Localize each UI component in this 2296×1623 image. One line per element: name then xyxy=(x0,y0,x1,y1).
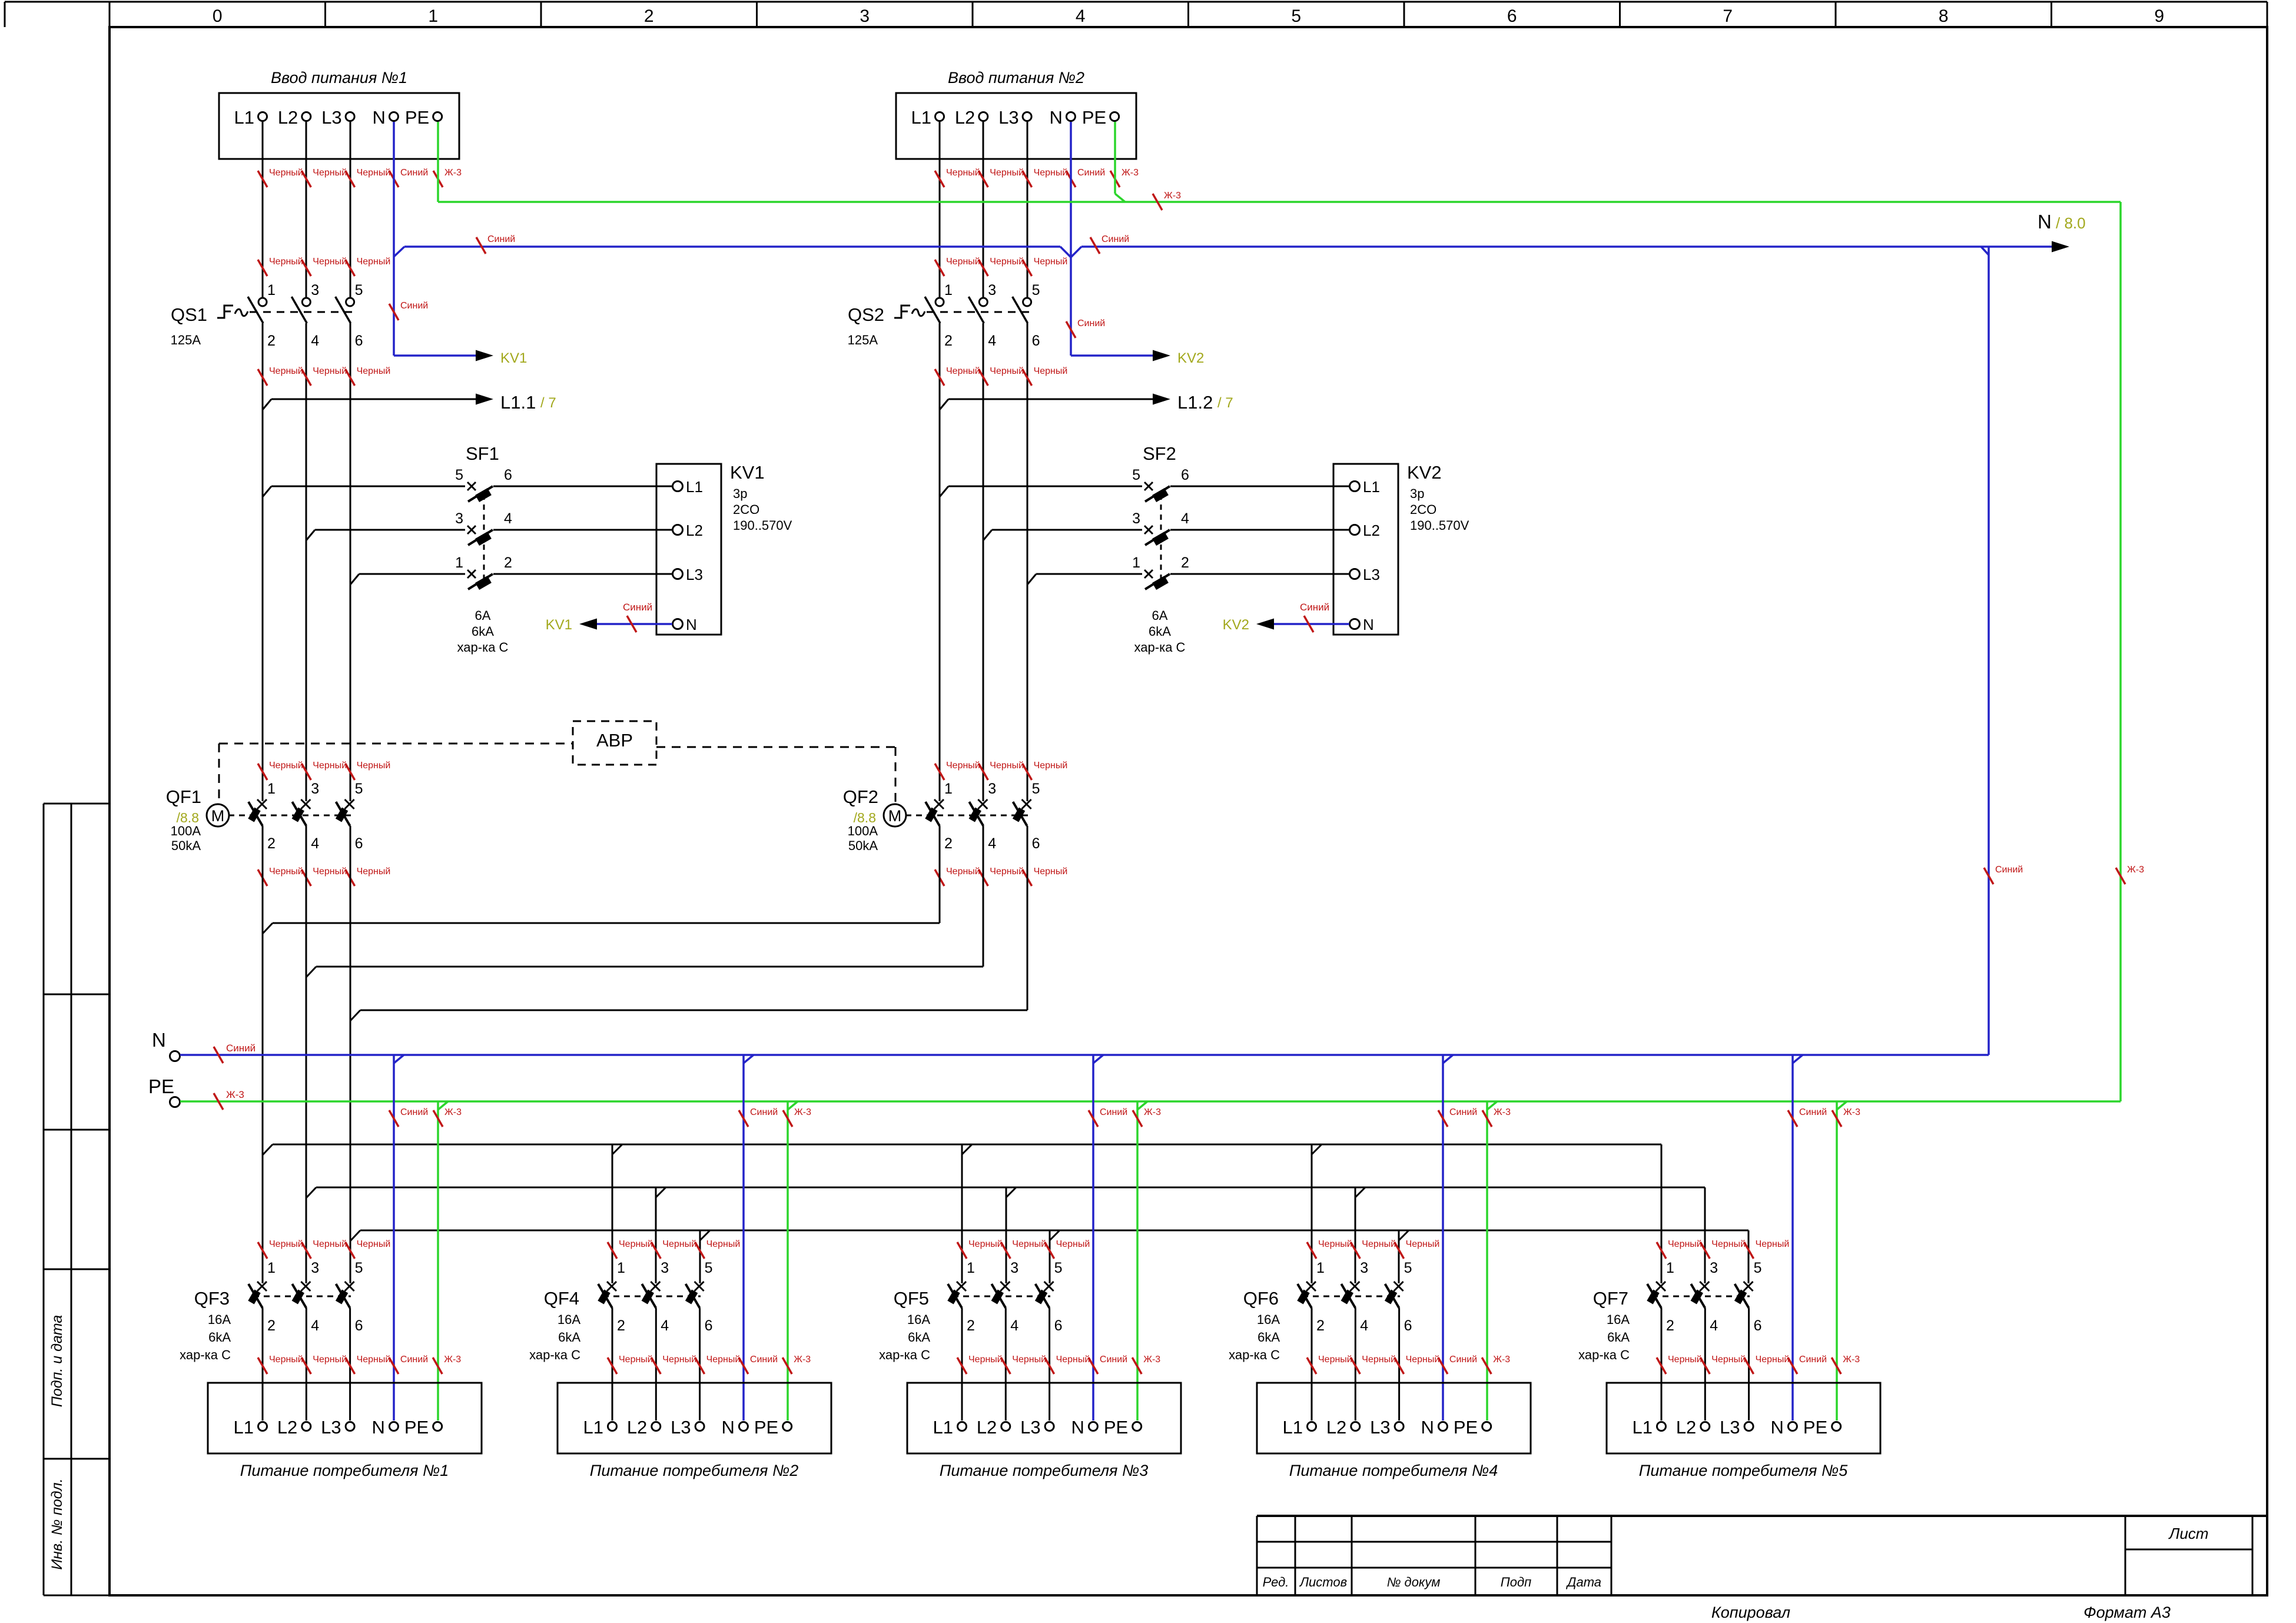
svg-text:L1: L1 xyxy=(1363,478,1380,496)
svg-text:Черный: Черный xyxy=(1318,1239,1352,1249)
svg-text:Черный: Черный xyxy=(1406,1239,1440,1249)
svg-text:Черный: Черный xyxy=(313,761,347,771)
svg-text:Черный: Черный xyxy=(968,1239,1003,1249)
svg-text:Листов: Листов xyxy=(1299,1575,1347,1589)
svg-text:9: 9 xyxy=(2154,6,2164,26)
wire N bus upper horizontal xyxy=(394,234,2052,257)
svg-text:Черный: Черный xyxy=(1406,1355,1440,1365)
svg-text:Черный: Черный xyxy=(357,168,391,178)
wire QF2 L2 output down to tie bus xyxy=(983,826,984,967)
wire QS2 L1 output to QF2 xyxy=(939,323,941,801)
svg-text:6: 6 xyxy=(1054,1317,1063,1334)
svg-text:/ 8.0: / 8.0 xyxy=(2056,214,2086,232)
wire KV2 N output with arrow to KV2 xyxy=(1223,602,1349,633)
svg-text:Ж-3: Ж-3 xyxy=(444,1355,461,1365)
svg-text:4: 4 xyxy=(988,835,996,852)
wire distribution bus L1 to consumer breakers xyxy=(263,1144,1661,1283)
svg-text:Синий: Синий xyxy=(1100,1355,1127,1365)
wire colour labels above QF2 xyxy=(935,761,1067,780)
svg-text:5: 5 xyxy=(355,1260,363,1276)
svg-text:Ж-3: Ж-3 xyxy=(1164,191,1181,201)
svg-text:2: 2 xyxy=(944,333,953,349)
svg-text:3: 3 xyxy=(988,282,996,298)
svg-text:Синий: Синий xyxy=(1077,318,1105,328)
svg-text:Дата: Дата xyxy=(1565,1575,1601,1589)
svg-text:PE: PE xyxy=(405,107,429,128)
svg-text:125A: 125A xyxy=(171,333,201,347)
svg-text:Черный: Черный xyxy=(269,1355,303,1365)
svg-text:Ж-3: Ж-3 xyxy=(1143,1355,1160,1365)
svg-text:Черный: Черный xyxy=(946,867,980,877)
svg-text:Черный: Черный xyxy=(313,1239,347,1249)
svg-text:Синий: Синий xyxy=(487,234,515,244)
wire PE bus right side vertical xyxy=(2116,202,2144,1101)
node L1.2 / 7 sheet reference arrow xyxy=(940,392,1233,413)
svg-text:5: 5 xyxy=(355,781,363,797)
terminal block output Питание потребителя №5 xyxy=(1607,1383,1880,1479)
svg-text:L3: L3 xyxy=(1363,566,1380,583)
wire colour labels below QF1 xyxy=(258,867,390,886)
svg-text:5: 5 xyxy=(1032,282,1040,298)
wire input1 L1 phase to QS1 xyxy=(262,122,264,298)
wire N input1 blue drop to KV1 arrow xyxy=(389,122,476,356)
svg-text:4: 4 xyxy=(1010,1317,1018,1334)
svg-text:190..570V: 190..570V xyxy=(733,518,792,533)
svg-text:Черный: Черный xyxy=(662,1355,696,1365)
svg-text:L2: L2 xyxy=(1326,1417,1346,1438)
wire QF2 L3 output down to tie bus xyxy=(1027,826,1028,1010)
svg-text:Черный: Черный xyxy=(357,1355,391,1365)
svg-text:6: 6 xyxy=(1181,467,1189,483)
svg-text:2: 2 xyxy=(267,333,276,349)
svg-text:1: 1 xyxy=(617,1260,625,1276)
wire colour labels above QF3 xyxy=(258,1239,390,1259)
svg-text:Питание потребителя №5: Питание потребителя №5 xyxy=(1639,1462,1848,1479)
svg-text:5: 5 xyxy=(1054,1260,1063,1276)
svg-text:N: N xyxy=(722,1417,735,1438)
node L1.1 / 7 sheet reference arrow xyxy=(263,392,556,413)
svg-text:Синий: Синий xyxy=(1101,234,1129,244)
svg-text:4: 4 xyxy=(1076,6,1086,26)
svg-text:3: 3 xyxy=(988,781,996,797)
svg-text:4: 4 xyxy=(311,1317,319,1334)
svg-text:Питание потребителя №3: Питание потребителя №3 xyxy=(940,1462,1149,1479)
svg-text:2: 2 xyxy=(504,555,512,571)
svg-text:4: 4 xyxy=(661,1317,669,1334)
svg-text:16A: 16A xyxy=(558,1312,580,1327)
svg-text:Черный: Черный xyxy=(990,257,1024,267)
wire input2 L3 phase to QS2 xyxy=(1027,122,1028,298)
svg-text:L3: L3 xyxy=(321,107,341,128)
svg-text:3: 3 xyxy=(1360,1260,1368,1276)
automatic transfer switch control box АВР xyxy=(573,721,656,765)
svg-text:L2: L2 xyxy=(955,107,975,128)
svg-text:L1.2: L1.2 xyxy=(1177,392,1213,413)
svg-text:Черный: Черный xyxy=(1056,1239,1090,1249)
svg-text:6kA: 6kA xyxy=(1149,624,1171,639)
left margin label Инв. № подл. xyxy=(49,1478,65,1569)
svg-text:3: 3 xyxy=(311,781,319,797)
svg-text:Черный: Черный xyxy=(269,366,303,376)
terminal block input 2 Ввод питания №2 xyxy=(896,69,1136,159)
svg-text:6: 6 xyxy=(1754,1317,1762,1334)
svg-text:2: 2 xyxy=(267,835,276,852)
voltage relay KV1 3p 2CO 190..570V xyxy=(656,462,792,635)
svg-text:6A: 6A xyxy=(1152,608,1168,623)
svg-text:Черный: Черный xyxy=(1012,1239,1046,1249)
wire distribution bus L3 to consumer breakers xyxy=(350,1230,1748,1283)
svg-text:3: 3 xyxy=(311,1260,319,1276)
svg-text:Черный: Черный xyxy=(357,761,391,771)
title block cell Лист xyxy=(2168,1525,2209,1542)
wire N bus right side vertical xyxy=(1981,247,2023,1055)
svg-text:L3: L3 xyxy=(1720,1417,1740,1438)
wire N lower bus xyxy=(180,1043,1989,1063)
wire tie bus L1 between QF1 and QF2 outputs xyxy=(263,923,940,934)
svg-text:3p: 3p xyxy=(1410,486,1424,501)
svg-text:Синий: Синий xyxy=(1449,1107,1477,1117)
svg-text:Ж-3: Ж-3 xyxy=(2127,865,2144,875)
node N lower bus terminal xyxy=(152,1029,180,1061)
left margin label Подп. и дата xyxy=(49,1315,65,1408)
svg-text:N: N xyxy=(152,1029,166,1051)
svg-text:хар-ка C: хар-ка C xyxy=(1578,1347,1630,1362)
svg-text:3: 3 xyxy=(455,510,463,527)
svg-text:6: 6 xyxy=(504,467,512,483)
svg-text:L2: L2 xyxy=(627,1417,647,1438)
svg-text:Черный: Черный xyxy=(662,1239,696,1249)
svg-text:Черный: Черный xyxy=(269,1239,303,1249)
wire colour labels above QF6 xyxy=(1307,1239,1439,1259)
svg-text:KV1: KV1 xyxy=(730,462,765,483)
svg-text:Черный: Черный xyxy=(990,867,1024,877)
svg-text:L2: L2 xyxy=(686,522,703,539)
svg-text:Питание потребителя №2: Питание потребителя №2 xyxy=(590,1462,799,1479)
svg-text:Черный: Черный xyxy=(1034,168,1068,178)
svg-text:Черный: Черный xyxy=(946,366,980,376)
svg-text:Синий: Синий xyxy=(1100,1107,1127,1117)
svg-text:Ж-3: Ж-3 xyxy=(1843,1107,1860,1117)
svg-text:Черный: Черный xyxy=(313,257,347,267)
svg-text:N: N xyxy=(2038,211,2052,233)
svg-text:хар-ка C: хар-ка C xyxy=(879,1347,930,1362)
wire QF1 L3 output down to QF3 xyxy=(350,826,351,1283)
svg-text:50kA: 50kA xyxy=(848,838,878,853)
svg-text:L1.1: L1.1 xyxy=(500,392,536,413)
voltage relay KV2 3p 2CO 190..570V xyxy=(1333,462,1469,635)
svg-text:Синий: Синий xyxy=(1077,168,1105,178)
wire taps QS1 phases to SF1 xyxy=(263,486,465,585)
svg-text:L1: L1 xyxy=(686,478,703,496)
svg-text:M: M xyxy=(888,807,902,825)
svg-text:Синий: Синий xyxy=(400,168,428,178)
svg-text:5: 5 xyxy=(1404,1260,1412,1276)
svg-text:N: N xyxy=(373,107,386,128)
svg-text:KV1: KV1 xyxy=(500,350,527,366)
svg-text:Черный: Черный xyxy=(946,168,980,178)
wire QF1 L2 output down to QF3 xyxy=(306,826,307,1283)
svg-text:6: 6 xyxy=(1507,6,1517,26)
svg-text:6kA: 6kA xyxy=(1607,1330,1630,1345)
svg-text:L2: L2 xyxy=(977,1417,997,1438)
svg-text:3: 3 xyxy=(1010,1260,1018,1276)
svg-text:2: 2 xyxy=(1316,1317,1325,1334)
svg-text:16A: 16A xyxy=(1257,1312,1280,1327)
wire PE drops to consumer blocks xyxy=(433,1101,1860,1420)
svg-text:1: 1 xyxy=(428,6,438,26)
svg-text:L3: L3 xyxy=(321,1417,341,1438)
svg-text:M: M xyxy=(211,807,225,825)
wire tie bus L2 between QF1 and QF2 outputs xyxy=(306,967,983,977)
wire colour labels input2 row below QS2 xyxy=(935,366,1067,386)
svg-text:/ 7: / 7 xyxy=(1217,395,1233,411)
svg-text:Черный: Черный xyxy=(946,761,980,771)
wire PE bus upper horizontal xyxy=(438,191,2121,210)
wire colour labels above QF4 xyxy=(608,1239,740,1259)
svg-text:Ж-3: Ж-3 xyxy=(794,1107,811,1117)
svg-text:Черный: Черный xyxy=(1034,366,1068,376)
svg-text:16A: 16A xyxy=(208,1312,231,1327)
svg-text:6: 6 xyxy=(1032,835,1040,852)
svg-text:50kA: 50kA xyxy=(171,838,201,853)
wire QS1 L2 output to QF1 xyxy=(306,323,307,801)
svg-text:1: 1 xyxy=(1132,555,1140,571)
svg-text:Черный: Черный xyxy=(1711,1355,1746,1365)
svg-text:Черный: Черный xyxy=(313,867,347,877)
svg-text:5: 5 xyxy=(1032,781,1040,797)
svg-text:L1: L1 xyxy=(1283,1417,1303,1438)
svg-text:N: N xyxy=(1771,1417,1784,1438)
svg-text:Копировал: Копировал xyxy=(1711,1604,1790,1621)
svg-text:Инв. № подл.: Инв. № подл. xyxy=(49,1478,65,1569)
svg-text:QF3: QF3 xyxy=(194,1288,230,1309)
svg-text:4: 4 xyxy=(504,510,512,527)
circuit breaker QF4 16A consumer 2 xyxy=(529,1260,712,1420)
svg-text:PE: PE xyxy=(148,1076,174,1097)
svg-text:Черный: Черный xyxy=(1756,1239,1790,1249)
wire KV1 N output with arrow to KV1 xyxy=(546,602,672,633)
circuit breaker QF1 100A 50kA motorized xyxy=(166,781,363,853)
wire QS2 L2 output to QF2 xyxy=(983,323,984,801)
svg-text:PE: PE xyxy=(754,1417,778,1438)
svg-text:1: 1 xyxy=(455,555,463,571)
svg-text:Черный: Черный xyxy=(1034,867,1068,877)
node N / 8.0 sheet reference arrow xyxy=(2038,211,2086,253)
svg-text:PE: PE xyxy=(1803,1417,1827,1438)
svg-text:Ред.: Ред. xyxy=(1263,1575,1289,1589)
svg-text:Черный: Черный xyxy=(313,1355,347,1365)
svg-text:Синий: Синий xyxy=(1449,1355,1477,1365)
svg-text:Ж-3: Ж-3 xyxy=(444,1107,462,1117)
wire colour labels input1 row above QS1 xyxy=(258,257,390,276)
svg-text:QS1: QS1 xyxy=(171,304,207,325)
wire colour labels above QF1 xyxy=(258,761,390,780)
wire distribution bus L2 to consumer breakers xyxy=(306,1187,1705,1283)
title block table xyxy=(1257,1516,2267,1595)
wire colour labels below QF7 xyxy=(1657,1355,1860,1374)
svg-text:6A: 6A xyxy=(475,608,491,623)
svg-text:QF6: QF6 xyxy=(1243,1288,1279,1309)
svg-text:Синий: Синий xyxy=(400,301,428,311)
terminal block output Питание потребителя №4 xyxy=(1257,1383,1531,1479)
footer label Копировал xyxy=(1711,1604,1790,1621)
svg-text:Подп: Подп xyxy=(1501,1575,1531,1589)
svg-text:6kA: 6kA xyxy=(908,1330,930,1345)
footer label Формат А3 xyxy=(2083,1604,2171,1621)
svg-text:Лист: Лист xyxy=(2168,1525,2209,1542)
svg-text:L3: L3 xyxy=(998,107,1018,128)
svg-text:3: 3 xyxy=(860,6,870,26)
svg-text:Ж-3: Ж-3 xyxy=(226,1089,244,1100)
svg-text:L3: L3 xyxy=(686,566,703,583)
drawing frame ruler strip xyxy=(5,2,2267,27)
svg-text:Ввод питания №1: Ввод питания №1 xyxy=(271,69,407,87)
wire PE input1 green drop xyxy=(437,122,439,202)
svg-text:2: 2 xyxy=(1666,1317,1674,1334)
wire colour labels input1 row below terminals xyxy=(258,168,462,187)
svg-text:QF4: QF4 xyxy=(544,1288,579,1309)
svg-text:Черный: Черный xyxy=(990,761,1024,771)
svg-text:SF1: SF1 xyxy=(466,443,499,464)
wire taps QS2 phases to SF2 xyxy=(940,486,1142,585)
svg-text:6kA: 6kA xyxy=(472,624,494,639)
svg-text:Черный: Черный xyxy=(619,1239,653,1249)
wire QS1 L1 output to QF1 xyxy=(262,323,264,801)
svg-text:6: 6 xyxy=(355,835,363,852)
svg-text:6: 6 xyxy=(705,1317,713,1334)
svg-text:8: 8 xyxy=(1939,6,1949,26)
svg-text:5: 5 xyxy=(1132,467,1140,483)
svg-text:5: 5 xyxy=(705,1260,713,1276)
wire PE lower bus xyxy=(180,1089,2121,1110)
svg-text:L1: L1 xyxy=(234,107,254,128)
svg-text:Черный: Черный xyxy=(706,1239,741,1249)
svg-text:Черный: Черный xyxy=(968,1355,1003,1365)
svg-text:Ж-3: Ж-3 xyxy=(1843,1355,1860,1365)
svg-text:PE: PE xyxy=(404,1417,429,1438)
node KV1 arrow from input1 N xyxy=(476,350,527,367)
svg-text:Черный: Черный xyxy=(1012,1355,1046,1365)
svg-text:3p: 3p xyxy=(733,486,747,501)
left margin column cells xyxy=(44,804,110,1595)
svg-text:Синий: Синий xyxy=(1799,1107,1827,1117)
svg-text:125A: 125A xyxy=(848,333,878,347)
circuit breaker QF6 16A consumer 4 xyxy=(1229,1260,1412,1420)
svg-text:Синий: Синий xyxy=(750,1107,778,1117)
svg-text:Ж-3: Ж-3 xyxy=(794,1355,811,1365)
svg-text:Подп. и дата: Подп. и дата xyxy=(49,1315,65,1408)
svg-text:хар-ка C: хар-ка C xyxy=(1134,640,1186,655)
svg-text:Синий: Синий xyxy=(400,1355,428,1365)
svg-text:3: 3 xyxy=(1132,510,1140,527)
svg-text:L3: L3 xyxy=(671,1417,691,1438)
svg-text:16A: 16A xyxy=(1607,1312,1630,1327)
svg-text:QF1: QF1 xyxy=(166,786,201,807)
wire input2 L1 phase to QS2 xyxy=(939,122,941,298)
circuit breaker QF7 16A consumer 5 xyxy=(1578,1260,1761,1420)
svg-text:L1: L1 xyxy=(933,1417,953,1438)
svg-text:1: 1 xyxy=(267,1260,276,1276)
svg-text:Черный: Черный xyxy=(1668,1355,1702,1365)
svg-text:4: 4 xyxy=(1181,510,1189,527)
svg-text:N: N xyxy=(372,1417,385,1438)
svg-text:PE: PE xyxy=(1104,1417,1128,1438)
svg-text:Синий: Синий xyxy=(623,602,652,613)
svg-text:1: 1 xyxy=(1316,1260,1325,1276)
svg-text:Черный: Черный xyxy=(946,257,980,267)
wire QS1 L3 output to QF1 xyxy=(350,323,351,801)
svg-text:6: 6 xyxy=(355,1317,363,1334)
wire colour labels input2 row above QS2 xyxy=(935,257,1067,276)
svg-text:100A: 100A xyxy=(848,824,878,838)
svg-text:L3: L3 xyxy=(1020,1417,1040,1438)
svg-text:QF2: QF2 xyxy=(843,786,878,807)
svg-text:L1: L1 xyxy=(583,1417,603,1438)
wire colour labels below QF6 xyxy=(1307,1355,1510,1374)
svg-text:2CO: 2CO xyxy=(1410,502,1436,517)
svg-text:2: 2 xyxy=(267,1317,276,1334)
svg-text:хар-ка C: хар-ка C xyxy=(180,1347,231,1362)
svg-text:3: 3 xyxy=(661,1260,669,1276)
circuit breaker QF3 16A consumer 1 xyxy=(180,1260,363,1420)
svg-text:Черный: Черный xyxy=(269,867,303,877)
wire input1 L2 phase to QS1 xyxy=(306,122,307,298)
svg-text:KV2: KV2 xyxy=(1177,350,1204,366)
svg-text:Черный: Черный xyxy=(1034,761,1068,771)
svg-text:2: 2 xyxy=(644,6,654,26)
svg-text:4: 4 xyxy=(1710,1317,1718,1334)
svg-text:Черный: Черный xyxy=(1034,257,1068,267)
svg-text:PE: PE xyxy=(1454,1417,1478,1438)
svg-text:Синий: Синий xyxy=(400,1107,428,1117)
svg-text:L2: L2 xyxy=(1363,522,1380,539)
svg-text:6: 6 xyxy=(1404,1317,1412,1334)
svg-text:№ докум: № докум xyxy=(1387,1575,1441,1589)
wire input1 L3 phase to QS1 xyxy=(350,122,351,298)
svg-text:L2: L2 xyxy=(278,107,298,128)
svg-text:хар-ка C: хар-ка C xyxy=(1229,1347,1280,1362)
svg-text:1: 1 xyxy=(267,781,276,797)
svg-text:L2: L2 xyxy=(1676,1417,1696,1438)
wire colour labels below QF2 xyxy=(935,867,1067,886)
svg-text:Ввод питания №2: Ввод питания №2 xyxy=(948,69,1084,87)
svg-text:Черный: Черный xyxy=(1756,1355,1790,1365)
svg-text:Черный: Черный xyxy=(313,168,347,178)
svg-text:Синий: Синий xyxy=(1300,602,1329,613)
svg-text:хар-ка C: хар-ка C xyxy=(529,1347,580,1362)
svg-text:N: N xyxy=(1050,107,1063,128)
svg-text:Черный: Черный xyxy=(1318,1355,1352,1365)
svg-text:L3: L3 xyxy=(1370,1417,1390,1438)
svg-text:Черный: Черный xyxy=(1711,1239,1746,1249)
svg-text:1: 1 xyxy=(944,781,953,797)
svg-text:N: N xyxy=(686,616,697,633)
wire colour labels input2 row below terminals xyxy=(935,168,1139,187)
svg-text:Черный: Черный xyxy=(619,1355,653,1365)
svg-text:4: 4 xyxy=(311,333,319,349)
svg-text:6kA: 6kA xyxy=(208,1330,231,1345)
wire PE input2 green drop xyxy=(1115,122,1125,202)
wires SF1 to KV1 xyxy=(493,486,672,574)
svg-text:Ж-3: Ж-3 xyxy=(1144,1107,1161,1117)
svg-text:Черный: Черный xyxy=(990,168,1024,178)
svg-text:N: N xyxy=(1071,1417,1084,1438)
svg-text:5: 5 xyxy=(1291,6,1301,26)
svg-text:5: 5 xyxy=(355,282,363,298)
svg-text:Черный: Черный xyxy=(1056,1355,1090,1365)
svg-text:Синий: Синий xyxy=(1995,865,2023,875)
svg-text:190..570V: 190..570V xyxy=(1410,518,1469,533)
